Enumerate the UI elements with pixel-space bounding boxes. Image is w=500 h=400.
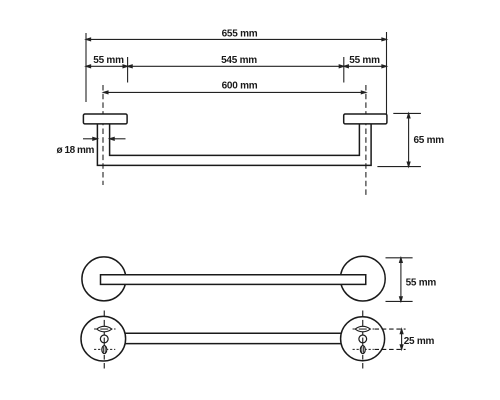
- screw slot ellipse: [102, 346, 107, 354]
- crosshair dashes slot level: [94, 348, 115, 350]
- svg-text:55 mm: 55 mm: [406, 277, 437, 288]
- extension line left: [85, 33, 87, 102]
- dimension 55 mm (front view) line: [400, 258, 403, 302]
- crosshair dashes wing level: [353, 328, 375, 330]
- rail (plan view) bottom line: [103, 343, 362, 345]
- centerline segment wing to screw hole: [362, 332, 364, 335]
- extension line right: [386, 32, 388, 114]
- dimension 25 mm line: [400, 329, 403, 349]
- centerline right post (dashed): [365, 85, 367, 195]
- left rosette mounting details: [94, 311, 116, 369]
- centerline through screw hole: [103, 338, 105, 346]
- dimension 55/545/55 line: [86, 65, 387, 68]
- ø 18 mm arrows: [83, 137, 126, 140]
- dimension 65 mm line: [407, 113, 410, 166]
- screw hole circle: [100, 335, 108, 343]
- centerline dash below slot: [103, 355, 105, 360]
- svg-text:ø 18 mm: ø 18 mm: [57, 145, 95, 156]
- dimension 655 mm line: [86, 38, 387, 41]
- dimension 600 mm line: [103, 91, 366, 94]
- right flange (side view): [344, 114, 387, 124]
- left rosette circle (front view): [82, 257, 126, 301]
- dimension 25 mm dashed leaders: [375, 328, 406, 330]
- svg-text:55 mm: 55 mm: [349, 55, 380, 66]
- crosshair dashes wing level: [94, 328, 116, 330]
- centerline segment to wing: [103, 320, 105, 327]
- dimension 55 mm (front view) ticks: [386, 257, 413, 259]
- wall plug wing symbol: [355, 326, 370, 332]
- centerline through screw hole: [362, 338, 364, 346]
- centerline dash below circle: [362, 363, 364, 369]
- svg-text:655 mm: 655 mm: [222, 29, 258, 40]
- towel rail (front view): [101, 275, 366, 285]
- centerline segment to wing: [362, 320, 364, 327]
- centerline segment wing to screw hole: [103, 332, 105, 335]
- centerline dash above circle: [103, 311, 105, 317]
- centerline dash above circle: [362, 311, 364, 317]
- svg-text:25 mm: 25 mm: [404, 336, 435, 347]
- left flange (side view): [83, 114, 127, 124]
- centerline left post (dashed): [102, 85, 104, 185]
- rail (plan view) top line: [103, 332, 362, 334]
- svg-text:545 mm: 545 mm: [221, 55, 257, 66]
- dimension 65 mm ticks: [393, 112, 421, 114]
- svg-text:55 mm: 55 mm: [93, 55, 124, 66]
- left rosette circle (plan view): [81, 316, 126, 361]
- tick left (55/545 boundary): [127, 57, 129, 83]
- svg-text:600 mm: 600 mm: [222, 80, 258, 91]
- centerline dash below slot: [362, 355, 364, 360]
- centerline dash below circle: [103, 363, 105, 369]
- wall plug wing symbol: [97, 326, 112, 332]
- right rosette circle (front view): [340, 256, 385, 301]
- right rosette mounting details: [353, 311, 375, 369]
- screw hole circle: [359, 335, 367, 343]
- tick right (545/55 boundary): [343, 57, 345, 83]
- screw slot ellipse: [360, 346, 365, 354]
- crosshair dashes slot level: [353, 348, 374, 350]
- svg-text:65 mm: 65 mm: [414, 135, 445, 146]
- towel bar outline (side view posts + rail): [97, 124, 371, 165]
- right rosette circle (plan view): [341, 317, 385, 361]
